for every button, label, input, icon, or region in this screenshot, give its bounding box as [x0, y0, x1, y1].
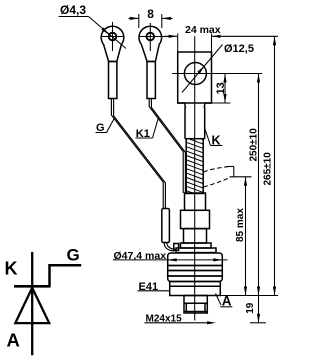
svg-text:Ø12,5: Ø12,5 — [224, 43, 254, 55]
svg-text:19: 19 — [245, 302, 256, 314]
svg-text:85 max: 85 max — [235, 208, 246, 242]
svg-text:13: 13 — [215, 82, 227, 94]
svg-text:G: G — [67, 246, 80, 265]
svg-text:K: K — [5, 259, 18, 279]
svg-text:250±10: 250±10 — [248, 128, 259, 162]
svg-text:24 max: 24 max — [185, 24, 221, 36]
svg-text:265±10: 265±10 — [263, 152, 274, 186]
svg-text:Ø4,3: Ø4,3 — [60, 3, 86, 17]
svg-text:8: 8 — [147, 7, 154, 21]
svg-text:A: A — [7, 330, 20, 351]
